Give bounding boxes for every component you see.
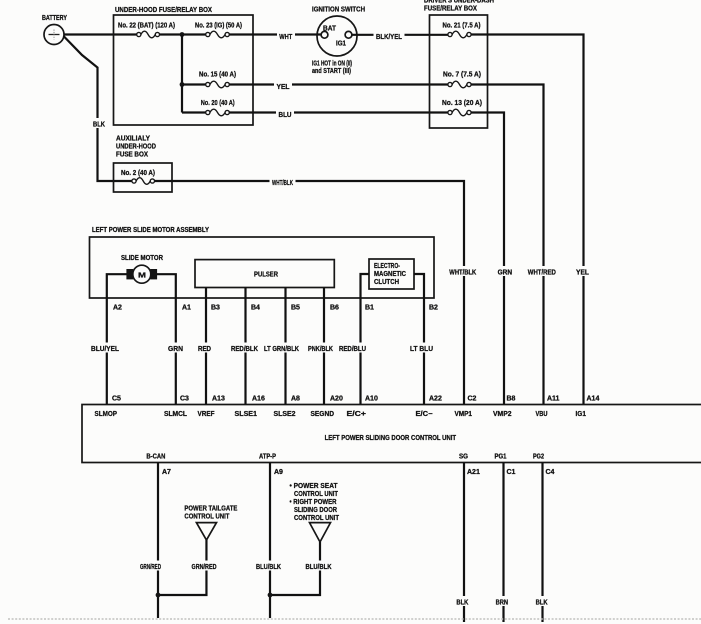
svg-text:BLU/BLK: BLU/BLK: [306, 564, 332, 571]
svg-text:A20: A20: [330, 396, 343, 403]
svg-text:SG: SG: [459, 454, 468, 461]
svg-text:No. 23 (IG) (50 A): No. 23 (IG) (50 A): [195, 23, 242, 30]
wire power seat branch: [270, 542, 320, 595]
svg-text:CLUTCH: CLUTCH: [374, 279, 399, 286]
label GRN/RED left: [138, 561, 164, 572]
wire A7 B-CAN: [157, 463, 159, 619]
svg-text:IG1 HOT in ON (II): IG1 HOT in ON (II): [312, 61, 352, 68]
page tear edge: [8, 618, 701, 620]
wire motor left to A2: [107, 274, 128, 404]
svg-text:IG1: IG1: [576, 411, 587, 418]
svg-text:No. 22 (BAT) (120 A): No. 22 (BAT) (120 A): [118, 23, 175, 30]
svg-text:A8: A8: [291, 396, 300, 403]
svg-text:RED/BLK: RED/BLK: [231, 346, 258, 353]
svg-text:A16: A16: [252, 396, 265, 403]
wire fuse7 to WHT/RED drop: [471, 85, 543, 405]
label YEL: [274, 80, 292, 91]
svg-text:M: M: [138, 273, 146, 280]
label GRN vertical drop: [496, 266, 515, 277]
svg-text:VREF: VREF: [198, 411, 216, 418]
svg-text:BATTERY: BATTERY: [42, 15, 67, 22]
slide motor M1: [126, 265, 157, 283]
ignition switch: [317, 16, 357, 56]
wire fuse15 to fuse7 YEL: [229, 83, 448, 85]
svg-text:B3: B3: [211, 305, 220, 312]
svg-text:UNDER-HOOD: UNDER-HOOD: [116, 144, 156, 151]
fuse No.23 (IG) (50 A): [206, 31, 230, 38]
under-hood fuse/relay box: [114, 15, 254, 125]
wire junction vertical: [181, 35, 183, 113]
svg-text:GRN: GRN: [498, 270, 512, 277]
svg-text:FUSE BOX: FUSE BOX: [116, 152, 148, 159]
svg-text:VMP1: VMP1: [455, 411, 473, 418]
label BRN ground C1: [493, 596, 511, 607]
svg-text:A21: A21: [467, 469, 480, 476]
svg-text:POWER TAILGATE: POWER TAILGATE: [184, 506, 237, 513]
fuse No.2 (40 A): [132, 178, 155, 185]
svg-text:SLIDE MOTOR: SLIDE MOTOR: [121, 255, 163, 262]
wire pulser B4: [244, 288, 246, 405]
fuse No.21 (7.5 A): [448, 31, 471, 38]
svg-text:SLSE2: SLSE2: [274, 411, 296, 418]
label LT BLU: [408, 343, 436, 354]
driver's under-dash fuse/relay box: [430, 15, 488, 128]
auxiliary under-hood fuse box: [114, 163, 173, 192]
svg-text:PULSER: PULSER: [254, 272, 278, 279]
svg-text:C5: C5: [112, 396, 121, 403]
wire junction to fuse15: [182, 83, 206, 85]
power seat connector triangle: [310, 523, 331, 542]
svg-text:WHT: WHT: [279, 34, 293, 41]
svg-text:BLU: BLU: [279, 112, 292, 119]
battery symbol: [44, 25, 64, 45]
power tailgate connector triangle: [196, 523, 216, 540]
wire battery to fuse No.22: [64, 33, 137, 35]
svg-text:C2: C2: [468, 396, 477, 403]
svg-text:B5: B5: [291, 305, 300, 312]
svg-text:VMP2: VMP2: [493, 411, 512, 418]
svg-text:No. 21 (7.5 A): No. 21 (7.5 A): [443, 23, 481, 30]
svg-text:BLU/BLK: BLU/BLK: [256, 564, 281, 571]
svg-text:PG1: PG1: [495, 454, 507, 461]
wire pulser B3: [205, 288, 207, 405]
svg-text:A11: A11: [547, 396, 560, 403]
wire fuse13 to GRN drop: [471, 113, 504, 405]
svg-text:A9: A9: [274, 469, 283, 476]
svg-text:LEFT POWER SLIDING DOOR CONTRO: LEFT POWER SLIDING DOOR CONTROL UNIT: [325, 435, 457, 442]
wire fuse20 to fuse13 BLU: [229, 111, 448, 113]
pulser box: [195, 260, 334, 288]
svg-text:ATP-P: ATP-P: [259, 454, 276, 461]
svg-text:GRN/RED: GRN/RED: [140, 564, 161, 571]
wire pulser B5: [284, 288, 286, 405]
svg-text:SEGND: SEGND: [311, 411, 335, 418]
svg-text:No. 13 (20 A): No. 13 (20 A): [442, 100, 482, 107]
svg-text:UNDER-HOOD FUSE/RELAY BOX: UNDER-HOOD FUSE/RELAY BOX: [115, 7, 212, 14]
svg-text:LT BLU: LT BLU: [410, 346, 433, 353]
label YEL vertical drop: [574, 266, 592, 277]
label BLK/YEL: [374, 30, 405, 41]
svg-text:WHT/BLK: WHT/BLK: [272, 180, 293, 187]
svg-text:WHT/RED: WHT/RED: [528, 270, 556, 277]
svg-text:B-CAN: B-CAN: [146, 454, 165, 461]
label WHT/BLK vertical drop: [447, 266, 479, 277]
wire motor right to A1: [156, 274, 176, 404]
svg-text:B6: B6: [330, 305, 339, 312]
label LT GRN/BLK: [262, 343, 302, 354]
wire fuse23 to ignition switch WHT: [229, 33, 321, 35]
svg-text:YEL: YEL: [576, 270, 590, 277]
label WHT: [277, 30, 295, 41]
svg-text:BLU/YEL: BLU/YEL: [91, 346, 120, 353]
svg-text:BLK: BLK: [93, 122, 105, 129]
wire fuse22 to fuse23: [160, 33, 206, 35]
wire junction to fuse20: [182, 111, 206, 113]
svg-text:E/C−: E/C−: [416, 411, 433, 418]
wire clutch B2: [414, 274, 424, 405]
wire fuse21 to YEL drop: [471, 35, 583, 405]
svg-text:MAGNETIC: MAGNETIC: [374, 271, 406, 278]
junction node A7 branch: [156, 593, 161, 598]
svg-text:No. 7 (7.5 A): No. 7 (7.5 A): [443, 72, 481, 79]
svg-text:YEL: YEL: [277, 84, 291, 91]
fuse No.15 (40 A): [206, 81, 230, 88]
wire A21 SG: [463, 463, 465, 623]
fuse No.13 (20 A): [448, 109, 471, 116]
svg-text:AUXILIALY: AUXILIALY: [116, 136, 150, 143]
svg-text:CONTROL UNIT: CONTROL UNIT: [294, 491, 339, 498]
svg-text:WHT/BLK: WHT/BLK: [449, 270, 476, 277]
svg-text:FUSE/RELAY BOX: FUSE/RELAY BOX: [424, 6, 477, 13]
wire BLK battery to auxiliary fuse box: [64, 36, 132, 181]
svg-text:CONTROL UNIT: CONTROL UNIT: [184, 514, 230, 521]
svg-text:A22: A22: [429, 396, 442, 403]
svg-text:C3: C3: [180, 396, 189, 403]
svg-text:SLMOP: SLMOP: [95, 411, 118, 418]
svg-text:A2: A2: [113, 305, 122, 312]
svg-text:A14: A14: [587, 396, 600, 403]
junction node A9 branch: [268, 593, 273, 598]
svg-text:B8: B8: [507, 396, 516, 403]
junction node at fuse 22 output: [180, 32, 185, 37]
wire C4 PG2: [541, 463, 543, 623]
svg-text:C1: C1: [507, 469, 516, 476]
electro-magnetic clutch box: [369, 259, 414, 289]
svg-text:B1: B1: [365, 305, 374, 312]
left power sliding door control unit box: [82, 405, 701, 463]
svg-text:A7: A7: [162, 469, 171, 476]
label BLK ground C4: [533, 596, 550, 607]
svg-text:DRIVER'S UNDER-DASH: DRIVER'S UNDER-DASH: [424, 0, 494, 5]
svg-text:PNK/BLK: PNK/BLK: [308, 346, 333, 353]
svg-text:LEFT POWER SLIDE MOTOR ASSEMBL: LEFT POWER SLIDE MOTOR ASSEMBLY: [92, 227, 209, 234]
label GRN: [166, 343, 186, 354]
svg-text:BRN: BRN: [496, 600, 509, 607]
wire pulser B6: [323, 288, 325, 405]
label RED/BLK: [229, 343, 261, 354]
svg-text:GRN: GRN: [168, 346, 183, 353]
label BLK ground A21: [454, 596, 471, 607]
label WHT/BLK: [270, 177, 296, 188]
svg-text:GRN/RED: GRN/RED: [192, 564, 217, 571]
fuse No.7 (7.5 A): [448, 81, 471, 88]
wire clutch B1: [361, 274, 370, 405]
svg-text:• POWER SEAT: • POWER SEAT: [290, 483, 339, 490]
label BLU/YEL: [89, 343, 122, 354]
svg-text:BLK: BLK: [536, 600, 548, 607]
svg-text:C4: C4: [546, 469, 555, 476]
svg-text:A13: A13: [212, 396, 225, 403]
label WHT/RED vertical drop: [526, 266, 559, 277]
label BLU/BLK left: [254, 561, 284, 572]
svg-text:A1: A1: [182, 305, 191, 312]
label BLU: [276, 108, 294, 119]
svg-text:CONTROL UNIT: CONTROL UNIT: [294, 515, 340, 522]
label GRN/RED right: [189, 561, 219, 572]
label PNK/BLK: [306, 343, 336, 354]
svg-text:and START (III): and START (III): [312, 68, 351, 75]
svg-text:E/C+: E/C+: [347, 411, 367, 418]
svg-text:RED: RED: [198, 346, 211, 353]
svg-text:No. 2 (40 A): No. 2 (40 A): [121, 170, 155, 177]
fuse No.20 (40 A): [206, 109, 230, 116]
label BLK: [91, 118, 107, 129]
svg-text:SLMCL: SLMCL: [164, 411, 188, 418]
svg-text:SLSE1: SLSE1: [235, 411, 258, 418]
svg-text:B2: B2: [429, 305, 438, 312]
svg-text:No. 15 (40 A): No. 15 (40 A): [199, 72, 236, 79]
wire fuse2 to WHT/BLK drop: [155, 181, 465, 405]
svg-text:IGNITION SWITCH: IGNITION SWITCH: [312, 7, 365, 14]
label RED/BLU: [337, 343, 369, 354]
svg-text:No. 20 (40 A): No. 20 (40 A): [201, 100, 235, 107]
label RED: [196, 343, 214, 354]
svg-text:IG1: IG1: [336, 41, 346, 48]
fuse No.22 (BAT) (120 A): [137, 31, 160, 38]
svg-text:ELECTRO-: ELECTRO-: [374, 263, 400, 270]
svg-text:A10: A10: [365, 396, 378, 403]
svg-text:BLK/YEL: BLK/YEL: [376, 34, 403, 41]
svg-text:PG2: PG2: [533, 454, 544, 461]
wire ignition IG1 to fuse21 BLK/YEL: [352, 34, 448, 36]
svg-text:• RIGHT POWER: • RIGHT POWER: [290, 499, 337, 506]
svg-text:RED/BLU: RED/BLU: [339, 346, 366, 353]
junction node at fuse 15 input: [180, 82, 185, 87]
svg-text:VBU: VBU: [536, 411, 548, 418]
wire tailgate branch: [158, 540, 206, 595]
svg-text:BLK: BLK: [456, 600, 468, 607]
svg-text:BAT: BAT: [323, 26, 337, 33]
wire A9 ATP-P: [269, 463, 271, 619]
svg-text:LT GRN/BLK: LT GRN/BLK: [264, 346, 299, 353]
svg-text:B4: B4: [251, 305, 260, 312]
wire C1 PG1: [502, 463, 504, 623]
left power slide motor assembly box: [90, 237, 435, 298]
label BLU/BLK right: [303, 561, 334, 572]
svg-text:SLIDING DOOR: SLIDING DOOR: [294, 507, 337, 514]
